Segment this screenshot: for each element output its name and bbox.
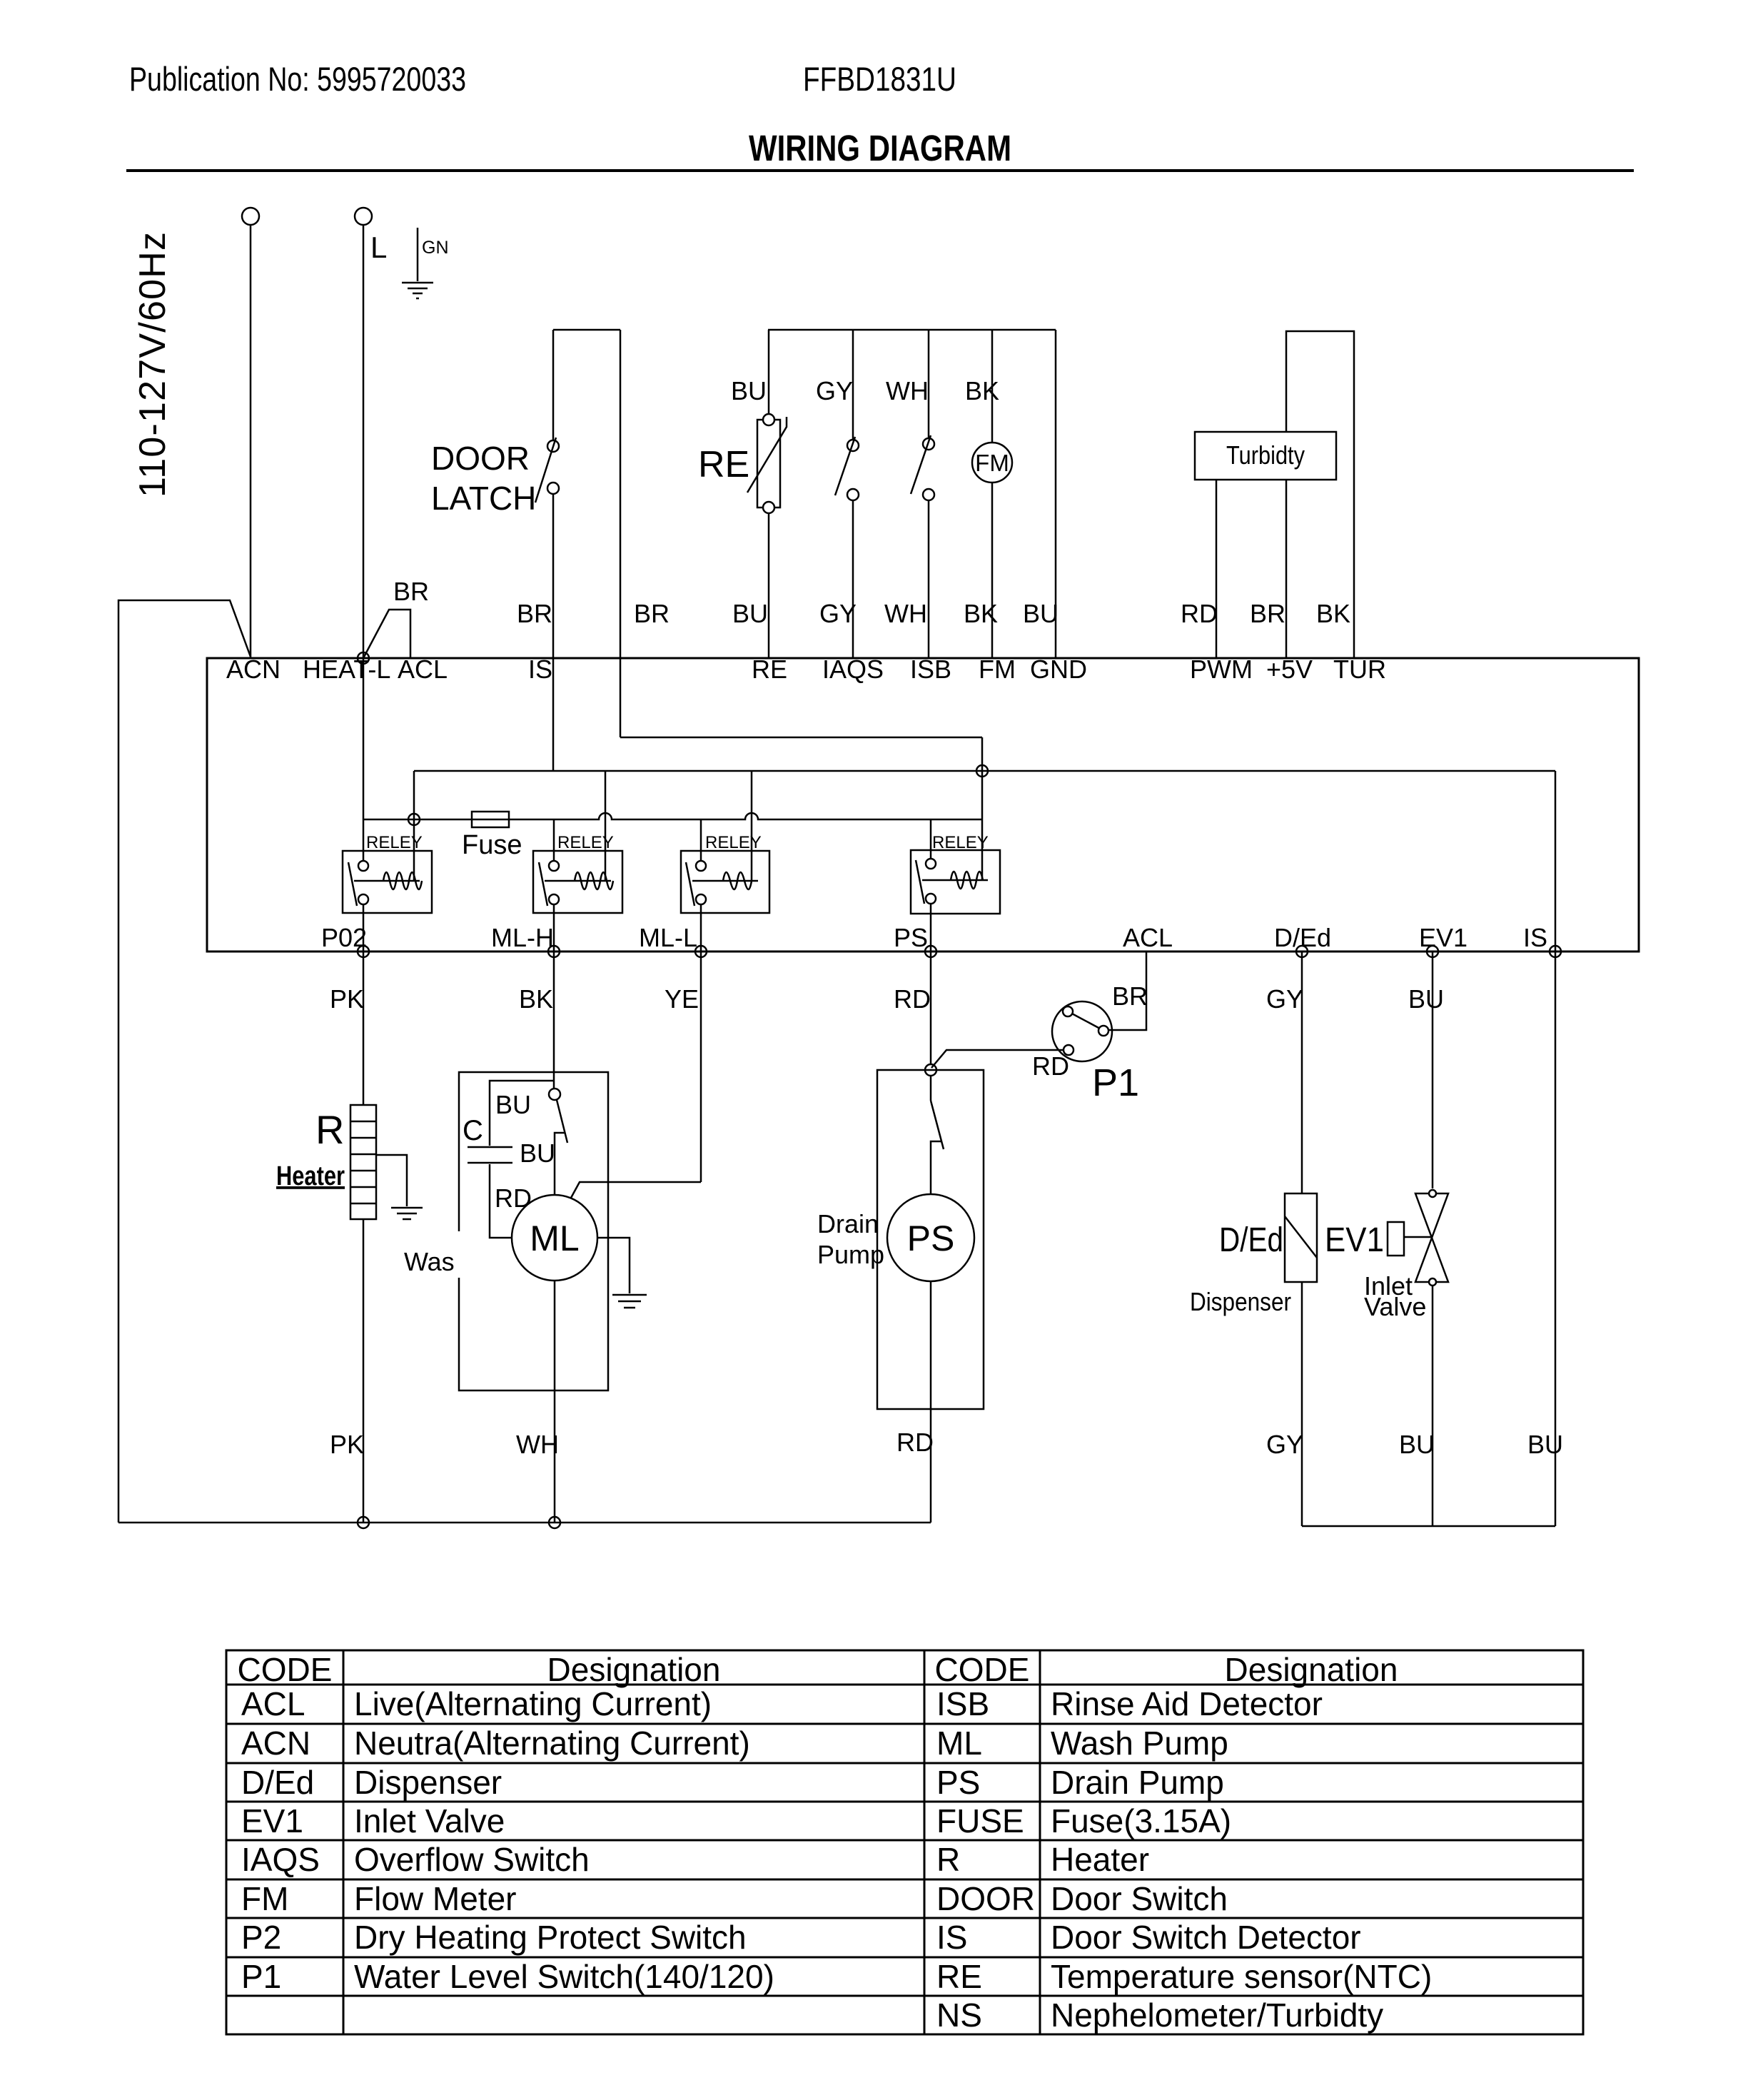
svg-text:Drain Pump: Drain Pump [1051, 1764, 1224, 1801]
wire BK to wash motor switch [553, 951, 555, 1089]
wire L drop to HEAT-L and relay1 switch [363, 225, 365, 861]
terminal N circle [242, 208, 259, 225]
bottom rail left [118, 1522, 931, 1524]
svg-text:P2: P2 [241, 1919, 281, 1956]
switch DOOR LATCH contacts [547, 440, 559, 452]
svg-text:Designation: Designation [547, 1651, 721, 1688]
heater R segment ticks [350, 1121, 376, 1203]
fuse F1 body [472, 812, 509, 827]
svg-text:YE: YE [665, 984, 699, 1014]
motor ML body [512, 1195, 597, 1281]
svg-text:ML: ML [530, 1218, 579, 1258]
wire bus C drop to relay4 switch [930, 819, 932, 859]
svg-text:BU: BU [732, 599, 768, 628]
inlet valve EV1 terminals [1429, 1190, 1436, 1197]
svg-text:Designation: Designation [1225, 1651, 1398, 1688]
svg-text:Fuse(3.15A): Fuse(3.15A) [1051, 1802, 1231, 1839]
inlet valve EV1 coil [1388, 1222, 1404, 1256]
junction ML-H [548, 946, 560, 957]
svg-text:FM: FM [241, 1880, 288, 1917]
svg-text:Fuse: Fuse [462, 830, 522, 860]
wire GY dispenser bottom [1301, 1282, 1303, 1526]
wire bus B drop to relay2 coil [605, 771, 607, 881]
flow meter FM body [972, 443, 1012, 483]
bottom rail right [1302, 1525, 1555, 1528]
wire bus B drop to relay3 coil [751, 771, 753, 881]
motor PS body [887, 1194, 974, 1281]
bus C with hops [363, 813, 982, 819]
svg-text:Dispenser: Dispenser [1190, 1287, 1291, 1316]
svg-text:+5V: +5V [1266, 655, 1313, 684]
svg-text:Rinse Aid Detector: Rinse Aid Detector [1051, 1685, 1323, 1722]
wire bus C drop to relay2 switch [553, 819, 555, 861]
svg-text:WH: WH [886, 376, 929, 405]
legend table text [238, 1651, 1433, 2034]
svg-text:BR: BR [634, 599, 670, 628]
wash pump inner box and capacitor branch [490, 1081, 554, 1238]
svg-text:PS: PS [894, 923, 928, 952]
wire turbidity PWM [1216, 480, 1218, 658]
relay K4 switch bottom wire [930, 904, 932, 951]
svg-text:D/Ed: D/Ed [1274, 923, 1331, 952]
svg-text:Inlet Valve: Inlet Valve [354, 1802, 505, 1839]
bus B [414, 770, 1555, 772]
wire ML right to ground [597, 1238, 630, 1293]
wire RD drain top [930, 951, 932, 1064]
switch IAQS contacts [847, 440, 859, 451]
junction IS bottom [1550, 946, 1561, 957]
svg-text:HEAT-L: HEAT-L [303, 655, 390, 684]
svg-text:GY: GY [819, 599, 857, 628]
ground ML bars [612, 1295, 647, 1308]
junction bus C left drop [408, 814, 420, 825]
svg-text:C: C [463, 1115, 483, 1146]
svg-text:CODE: CODE [935, 1651, 1030, 1688]
switch ISB feed [928, 330, 930, 438]
svg-text:ACN: ACN [241, 1725, 310, 1762]
svg-text:ISB: ISB [936, 1685, 989, 1722]
svg-text:EV1: EV1 [241, 1802, 303, 1839]
svg-text:Was: Was [404, 1247, 455, 1276]
wire BU valve top [1432, 951, 1434, 1188]
junction EV1 [1427, 946, 1438, 957]
relay K3 coil [692, 872, 758, 889]
svg-text:DOOR: DOOR [431, 440, 530, 477]
svg-text:D/Ed: D/Ed [1219, 1221, 1283, 1259]
switch DOOR LATCH blade [535, 438, 556, 503]
wire bus B right drop to IS bottom [1555, 771, 1557, 951]
switch PS lower contact [931, 1141, 942, 1194]
junction rail PK [358, 1517, 369, 1528]
svg-text:BU: BU [495, 1090, 531, 1119]
svg-text:GY: GY [1266, 1430, 1303, 1459]
svg-text:Valve: Valve [1364, 1292, 1426, 1321]
wire BU valve bottom [1432, 1286, 1434, 1526]
svg-text:ML-H: ML-H [491, 923, 554, 952]
svg-text:GY: GY [1266, 984, 1303, 1014]
capacitor C plates [468, 1147, 512, 1163]
svg-text:110-127V/60Hz: 110-127V/60Hz [132, 232, 173, 498]
svg-text:Temperature sensor(NTC): Temperature sensor(NTC) [1051, 1958, 1432, 1995]
svg-text:ISB: ISB [910, 655, 951, 684]
turbidity sensor box [1195, 432, 1336, 480]
svg-text:FUSE: FUSE [936, 1802, 1024, 1839]
flow meter FM bottom wire [991, 483, 994, 658]
svg-text:BK: BK [965, 376, 999, 405]
svg-text:Door Switch Detector: Door Switch Detector [1051, 1919, 1361, 1956]
svg-text:BR: BR [1250, 599, 1285, 628]
switch ML lower contact [555, 1133, 565, 1195]
svg-text:Pump: Pump [817, 1240, 884, 1269]
junction P02 [358, 946, 369, 957]
svg-text:RD: RD [896, 1428, 934, 1457]
relay K3 blade [686, 862, 694, 906]
svg-text:BU: BU [1023, 599, 1059, 628]
wire bus B left drop to relay1 coil [413, 771, 415, 881]
wire door latch loop to bus A [553, 330, 620, 737]
wire bus A drop through B and C to relay4 coil [981, 737, 984, 880]
svg-text:BR: BR [393, 577, 429, 606]
svg-text:RE: RE [752, 655, 787, 684]
svg-text:ML-L: ML-L [639, 923, 697, 952]
relay K3 contacts [696, 861, 706, 871]
wire GND drop [1055, 330, 1057, 658]
svg-text:Neutra(Alternating Current): Neutra(Alternating Current) [354, 1725, 750, 1762]
wire RE top [768, 330, 770, 414]
switch IAQS feed [852, 330, 854, 440]
pressure switch P1 body [1052, 1001, 1112, 1061]
relay K1 coil [354, 872, 422, 889]
ground GN stem [417, 228, 419, 281]
svg-text:RELEY: RELEY [557, 833, 614, 852]
wire neutral left rail [118, 600, 251, 1523]
bus A [620, 737, 982, 739]
svg-text:RD: RD [1032, 1051, 1069, 1081]
wire YE from ML-L [700, 951, 702, 1182]
wire IAQS bottom [852, 500, 854, 658]
svg-text:RELEY: RELEY [705, 833, 762, 852]
switch IAQS blade [835, 437, 855, 495]
svg-text:WH: WH [884, 599, 927, 628]
junction ML-L [695, 946, 707, 957]
wire IS from door latch to bus B [552, 494, 555, 771]
svg-text:FM: FM [975, 450, 1009, 476]
svg-text:IAQS: IAQS [241, 1841, 320, 1878]
switch PS blade [931, 1101, 944, 1149]
svg-text:BU: BU [520, 1139, 555, 1168]
junction D/Ed [1296, 946, 1308, 957]
svg-text:RE: RE [936, 1958, 982, 1995]
relay K2 switch bottom wire [553, 904, 555, 951]
svg-text:GN: GN [422, 238, 449, 258]
terminal L circle [355, 208, 372, 225]
svg-text:ACL: ACL [398, 655, 448, 684]
wire ACL to P1 [1108, 951, 1146, 1030]
relay K3 box [681, 851, 769, 913]
svg-text:Heater: Heater [276, 1161, 345, 1191]
ground heater bars [391, 1208, 423, 1219]
wire BU IS drop [1555, 951, 1557, 1526]
wash pump outer box [459, 1072, 608, 1390]
relay K4 contacts [926, 859, 936, 869]
svg-text:BU: BU [1399, 1430, 1435, 1459]
svg-text:Live(Alternating Current): Live(Alternating Current) [354, 1685, 712, 1722]
svg-text:Water Level Switch(140/120): Water Level Switch(140/120) [354, 1958, 774, 1995]
relay K3 switch bottom wire [700, 904, 702, 951]
pressure switch P1 blade [1071, 1013, 1101, 1029]
wire top rail above RE block [768, 329, 1056, 331]
relay K1 box [343, 851, 432, 913]
relay K4 blade [916, 860, 924, 904]
wire ACL jog [363, 610, 410, 658]
wire WH motor bottom [554, 1281, 556, 1523]
svg-text:Overflow Switch: Overflow Switch [354, 1841, 590, 1878]
svg-text:BU: BU [731, 376, 767, 405]
wire turbidity bypass [1286, 331, 1354, 658]
svg-text:BR: BR [1112, 981, 1148, 1011]
thermistor RE terminals [763, 414, 774, 425]
heater R body [350, 1105, 376, 1219]
relay K1 blade [348, 862, 357, 906]
svg-text:IS: IS [528, 655, 552, 684]
inlet valve EV1 body [1415, 1193, 1448, 1282]
svg-text:EV1: EV1 [1325, 1221, 1384, 1259]
svg-text:RELEY: RELEY [366, 833, 423, 852]
switch ISB blade [911, 435, 931, 494]
switch PS feed [930, 1076, 932, 1101]
title rule [126, 169, 1634, 172]
wire RD drain bottom [930, 1281, 932, 1523]
svg-text:WIRING DIAGRAM: WIRING DIAGRAM [749, 128, 1011, 168]
svg-text:L: L [370, 231, 387, 264]
svg-text:Door Switch: Door Switch [1051, 1880, 1228, 1917]
svg-text:IS: IS [936, 1919, 967, 1956]
wire ACN drop [250, 225, 252, 658]
svg-text:Drain: Drain [817, 1209, 879, 1238]
svg-text:BU: BU [1408, 984, 1444, 1014]
wire GY dispenser top [1301, 951, 1303, 1193]
dispenser D/Ed body [1285, 1193, 1317, 1282]
svg-text:Turbidty: Turbidty [1226, 440, 1305, 470]
svg-text:EV1: EV1 [1419, 923, 1468, 952]
svg-text:R: R [936, 1841, 960, 1878]
switch ML pivot [549, 1089, 560, 1100]
junction HEAT-L [358, 652, 369, 664]
svg-text:Publication No: 5995720033: Publication No: 5995720033 [129, 60, 466, 98]
svg-text:FFBD1831U: FFBD1831U [803, 60, 956, 98]
control board outline [207, 658, 1639, 951]
svg-text:BR: BR [517, 599, 552, 628]
heater tap wire [376, 1155, 407, 1206]
svg-text:ACL: ACL [1123, 923, 1173, 952]
svg-text:RD: RD [894, 984, 931, 1014]
legend table grid [226, 1650, 1583, 2034]
junction drain node [925, 1064, 936, 1076]
svg-text:PWM: PWM [1190, 655, 1253, 684]
switch ML blade [557, 1100, 567, 1143]
svg-text:GND: GND [1030, 655, 1087, 684]
svg-text:D/Ed: D/Ed [241, 1764, 314, 1801]
svg-text:RE: RE [698, 444, 749, 485]
wire bus C drop to relay3 switch [700, 819, 702, 861]
svg-text:DOOR: DOOR [936, 1880, 1035, 1917]
svg-text:CODE: CODE [238, 1651, 333, 1688]
svg-text:R: R [315, 1107, 344, 1152]
flow meter FM feed [991, 330, 994, 443]
svg-text:ACN: ACN [226, 655, 281, 684]
svg-text:P1: P1 [241, 1958, 281, 1995]
relay K2 blade [539, 862, 547, 906]
svg-text:FM: FM [979, 655, 1016, 684]
svg-text:BK: BK [964, 599, 998, 628]
junction bus A/B [976, 765, 988, 777]
relay K4 coil [922, 872, 988, 889]
svg-text:IAQS: IAQS [822, 655, 884, 684]
wire P1 RD to drain node [931, 1050, 1064, 1068]
thermistor RE body [757, 420, 780, 508]
svg-text:BK: BK [519, 984, 553, 1014]
svg-text:IS: IS [1523, 923, 1547, 952]
junction PS [925, 946, 936, 957]
svg-text:GY: GY [816, 376, 853, 405]
ground GN bars [402, 283, 433, 298]
relay K2 coil [545, 872, 613, 889]
drain pump box [877, 1070, 984, 1409]
svg-text:Dispenser: Dispenser [354, 1764, 502, 1801]
junction rail WH [549, 1517, 560, 1528]
svg-text:PK: PK [330, 984, 364, 1014]
pressure switch P1 contacts [1063, 1006, 1073, 1016]
svg-text:ACL: ACL [241, 1685, 305, 1722]
dispenser D/Ed diagonal [1285, 1216, 1317, 1258]
svg-text:TUR: TUR [1333, 655, 1386, 684]
svg-text:Heater: Heater [1051, 1841, 1149, 1878]
svg-text:NS: NS [936, 1996, 982, 2034]
relay K2 contacts [549, 861, 559, 871]
relay K2 box [533, 851, 622, 913]
svg-text:P1: P1 [1092, 1061, 1139, 1104]
switch ISB contacts [923, 438, 934, 450]
svg-text:Flow Meter: Flow Meter [354, 1880, 516, 1917]
svg-text:RD: RD [1181, 599, 1218, 628]
svg-text:Nephelometer/Turbidty: Nephelometer/Turbidty [1051, 1996, 1383, 2034]
svg-text:LATCH: LATCH [431, 480, 536, 517]
wire turbidity +5V [1285, 480, 1288, 658]
wire door latch feed [552, 330, 555, 440]
svg-text:BU: BU [1527, 1430, 1563, 1459]
wire RE bottom [768, 513, 770, 658]
svg-text:Dry Heating Protect Switch: Dry Heating Protect Switch [354, 1919, 747, 1956]
wire PK heater top [363, 951, 365, 1105]
wire PK heater bottom [363, 1219, 365, 1523]
svg-text:Wash Pump: Wash Pump [1051, 1725, 1228, 1762]
wire ML aux to YE [571, 1182, 701, 1198]
svg-text:PS: PS [907, 1218, 955, 1258]
svg-text:PS: PS [936, 1764, 980, 1801]
wire ISB bottom [928, 500, 930, 658]
svg-text:BK: BK [1316, 599, 1350, 628]
svg-text:WH: WH [516, 1430, 559, 1459]
thermistor RE strike [747, 417, 787, 493]
relay K1 switch bottom wire [363, 904, 365, 951]
relay K4 box [911, 850, 1000, 914]
svg-text:PK: PK [330, 1430, 364, 1459]
relay K1 contacts [358, 861, 368, 871]
svg-text:RD: RD [495, 1183, 532, 1213]
svg-text:ML: ML [936, 1725, 982, 1762]
